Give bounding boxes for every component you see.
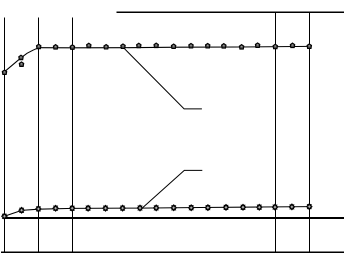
top marker 9 bbox=[137, 43, 141, 48]
top marker 4 bbox=[53, 45, 57, 50]
bottom marker 10 bbox=[154, 205, 159, 211]
top marker 1 bbox=[2, 70, 6, 75]
bottom marker 7 bbox=[103, 205, 108, 211]
vertical grid line 2 (x=38.4) bbox=[38, 18, 40, 253]
top marker 10 bbox=[154, 43, 158, 48]
bottom data curve bbox=[4, 207, 309, 217]
bottom leader/callout line bbox=[143, 170, 202, 207]
vertical grid line 1 (x=4.4) bbox=[4, 18, 6, 253]
bottom marker 2 bbox=[19, 207, 24, 213]
top marker 12 bbox=[189, 43, 193, 48]
vertical grid line 3 (x=72.2) bbox=[72, 18, 74, 253]
stray marker below top curve bbox=[19, 62, 23, 67]
top marker 11 bbox=[171, 44, 175, 49]
bottom marker 18 bbox=[289, 204, 294, 210]
bottom marker 12 bbox=[189, 205, 194, 211]
top marker 5 bbox=[70, 45, 74, 50]
bottom marker 4 bbox=[53, 205, 58, 211]
bottom marker 13 bbox=[205, 205, 210, 211]
top marker 15 bbox=[239, 45, 243, 50]
top marker 3 bbox=[37, 44, 41, 49]
top marker 7 bbox=[104, 45, 108, 50]
bottom marker 1 bbox=[2, 213, 7, 219]
bottom horizontal border line bbox=[1, 251, 344, 253]
top marker 2 bbox=[19, 55, 23, 60]
top marker 13 bbox=[206, 43, 210, 48]
bottom marker 16 bbox=[257, 204, 262, 210]
bottom marker 15 bbox=[240, 204, 245, 210]
top horizontal border line bbox=[117, 11, 344, 13]
top marker 16 bbox=[255, 43, 259, 48]
bottom marker 3 bbox=[36, 206, 41, 212]
vertical grid line 4 (x=275.4) bbox=[275, 12, 277, 252]
vertical grid line 5 (x=309.4) bbox=[309, 12, 311, 252]
top leader/callout line bbox=[124, 48, 202, 109]
top marker 8 bbox=[121, 44, 125, 49]
bottom marker 11 bbox=[171, 205, 176, 211]
middle horizontal line bbox=[4, 217, 344, 219]
top marker 6 bbox=[87, 43, 91, 48]
top marker 19 bbox=[307, 44, 311, 49]
bottom marker 14 bbox=[223, 205, 228, 211]
bottom marker 6 bbox=[85, 205, 90, 211]
bottom marker 8 bbox=[120, 205, 125, 211]
bottom marker 5 bbox=[70, 205, 75, 211]
top marker 17 bbox=[273, 44, 277, 49]
top marker 18 bbox=[290, 43, 294, 48]
bottom marker 19 bbox=[307, 204, 312, 210]
top data curve bbox=[4, 46, 309, 71]
top marker 14 bbox=[222, 44, 226, 49]
bottom marker 9 bbox=[137, 205, 142, 211]
bottom marker 17 bbox=[272, 204, 277, 210]
